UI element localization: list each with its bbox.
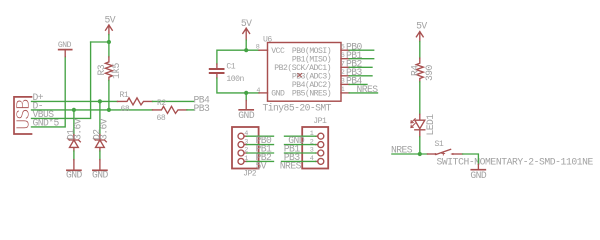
svg-text:R2: R2: [157, 99, 166, 108]
wire 5V to VBUS branch: [91, 41, 109, 43]
ground (C1/U6): [238, 93, 255, 121]
svg-text:3: 3: [341, 78, 345, 86]
svg-text:68: 68: [121, 105, 130, 114]
wire JP1 pin4 / label NRES: [282, 160, 316, 162]
wire VCC rail to C1: [217, 50, 259, 64]
diode D2 (zener 3.6V): [91, 118, 109, 151]
ground GND (top-left, inverted): [58, 41, 72, 57]
svg-text:2: 2: [341, 69, 345, 77]
svg-text:6: 6: [341, 52, 345, 60]
ground (D2): [92, 160, 109, 181]
connector USB: [13, 92, 60, 134]
svg-text:68: 68: [157, 114, 166, 123]
LED LED1: [411, 114, 436, 137]
svg-text:8: 8: [256, 44, 260, 52]
switch S1: [428, 140, 594, 168]
junction GND rail: [244, 91, 248, 95]
wire S1 to GND: [463, 154, 479, 164]
supply 5V (left): [105, 15, 116, 35]
pin 1 / net NRES: [341, 92, 349, 94]
wire JP2 pin3 / label PB1: [247, 144, 274, 146]
wire 5V down: [108, 35, 110, 57]
capacitor C1: [210, 62, 245, 84]
wire JP2 pin4 / label PB0: [247, 135, 274, 137]
svg-text:R1: R1: [120, 91, 129, 100]
wire JP1 pin2 / label PB1: [285, 144, 316, 146]
svg-text:GND: GND: [238, 110, 255, 121]
wire R4 to LED1: [419, 82, 421, 115]
svg-text:GND: GND: [271, 90, 285, 99]
svg-text:PB5(NRES): PB5(NRES): [292, 90, 331, 99]
wire R3 to D-: [108, 81, 110, 110]
wire D1 to GND: [73, 151, 75, 160]
wire D-: [32, 109, 153, 111]
wire JP1 pin1 / label GND: [285, 135, 316, 137]
ground (S1): [470, 164, 487, 181]
svg-text:GND: GND: [470, 170, 487, 181]
pin 6 / net PB1: [341, 58, 349, 60]
svg-text:5: 5: [341, 43, 345, 51]
resistor R2: [153, 99, 187, 123]
svg-text:3.6V: 3.6V: [72, 118, 83, 140]
junction 5V branch: [107, 40, 111, 44]
junction D1 on D-: [72, 108, 76, 112]
junction VCC: [244, 48, 248, 52]
wire NRES: [392, 153, 428, 155]
svg-text:R4: R4: [409, 65, 420, 76]
wire R1 to PB4: [153, 100, 194, 102]
svg-text:C1: C1: [226, 62, 235, 71]
svg-text:4: 4: [256, 87, 260, 95]
pin 4 (GND): [259, 92, 268, 94]
svg-text:PB3: PB3: [194, 103, 211, 114]
svg-text:3.6V: 3.6V: [98, 118, 109, 140]
svg-text:VCC: VCC: [271, 47, 285, 56]
pin 8 (VCC): [259, 49, 268, 51]
wire 5V to R4: [419, 42, 421, 59]
svg-text:100n: 100n: [226, 75, 244, 84]
svg-text:GND: GND: [92, 169, 109, 180]
svg-text:GND: GND: [66, 169, 83, 180]
wire JP2 pin1 / label 5V: [247, 160, 274, 162]
resistor R1: [118, 91, 153, 114]
wire GND*5: [32, 57, 66, 127]
junction R3/D-: [107, 108, 111, 112]
resistor R4: [409, 58, 435, 82]
pin 5 / net PB0: [341, 49, 349, 51]
wire JP1 pin3 / label PB3: [285, 152, 316, 154]
red cross mark on PB3 row: [298, 73, 302, 76]
wire D+: [32, 100, 118, 102]
svg-text:5V: 5V: [105, 15, 116, 26]
wire D- to D1: [73, 110, 75, 135]
svg-text:5V: 5V: [256, 160, 267, 171]
svg-text:1k5: 1k5: [111, 62, 122, 79]
pin 7 / net PB2: [341, 66, 349, 68]
wire R2 to PB3: [187, 109, 194, 111]
svg-text:NRES: NRES: [280, 160, 302, 171]
junction NRES: [418, 152, 422, 156]
pin 2 / net PB3: [341, 75, 349, 77]
svg-text:LED1: LED1: [425, 114, 436, 136]
svg-text:5V: 5V: [241, 18, 252, 29]
IC U6 Tiny85-20-SMT: [263, 36, 342, 114]
diode D1 (zener 3.6V): [65, 118, 83, 151]
wire 5V to VCC rail: [245, 40, 247, 50]
connector JP2: [232, 127, 259, 178]
svg-text:390: 390: [424, 64, 435, 81]
supply 5V (middle): [241, 18, 252, 40]
junction D2 on D+: [98, 99, 102, 103]
svg-text:1: 1: [341, 86, 345, 94]
svg-text:NRES: NRES: [357, 84, 379, 95]
wire LED1 to NRES node: [419, 137, 421, 154]
svg-text:SWITCH-MOMENTARY-2-SMD-1101NE: SWITCH-MOMENTARY-2-SMD-1101NE: [437, 157, 594, 168]
svg-text:R3: R3: [96, 64, 107, 75]
pin 3 / net PB4: [341, 83, 349, 85]
svg-text:GND: GND: [58, 41, 72, 50]
svg-text:5V: 5V: [416, 20, 427, 31]
resistor R3: [96, 57, 122, 81]
wire JP2 pin2 / label PB2: [247, 152, 274, 154]
wire C1 to GND rail: [217, 78, 259, 93]
svg-text:S1: S1: [435, 140, 444, 149]
wire D+ to D2: [99, 101, 101, 134]
svg-text:7: 7: [341, 60, 345, 68]
supply 5V (right): [416, 20, 427, 41]
ground (D1): [66, 160, 83, 181]
wire D2 to GND: [99, 151, 101, 160]
connector JP1: [302, 117, 328, 169]
wire VBUS: [32, 42, 91, 118]
svg-text:Tiny85-20-SMT: Tiny85-20-SMT: [263, 102, 332, 113]
svg-text:JP1: JP1: [313, 117, 327, 126]
